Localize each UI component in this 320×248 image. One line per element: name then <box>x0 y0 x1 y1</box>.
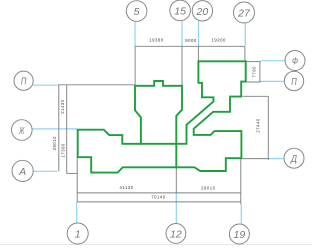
svg-text:19380: 19380 <box>149 37 164 42</box>
svg-text:1: 1 <box>75 229 81 241</box>
svg-text:27440: 27440 <box>255 118 260 133</box>
svg-text:20: 20 <box>196 6 209 18</box>
svg-text:17390: 17390 <box>60 143 65 158</box>
svg-text:Ф: Ф <box>292 56 298 68</box>
svg-text:7790: 7790 <box>251 66 256 78</box>
svg-text:70140: 70140 <box>151 194 166 199</box>
svg-text:19: 19 <box>234 229 246 241</box>
svg-text:Ж: Ж <box>19 125 25 137</box>
svg-text:А: А <box>18 166 26 178</box>
svg-text:29010: 29010 <box>201 185 216 190</box>
svg-text:9000: 9000 <box>185 38 197 43</box>
svg-text:41130: 41130 <box>120 185 134 190</box>
svg-text:39010: 39010 <box>52 136 57 151</box>
svg-text:П: П <box>291 76 297 88</box>
svg-text:15: 15 <box>174 5 186 17</box>
svg-text:12: 12 <box>170 228 182 240</box>
svg-text:19200: 19200 <box>211 38 226 43</box>
svg-text:Д: Д <box>290 153 297 165</box>
svg-text:5: 5 <box>134 6 140 18</box>
svg-text:21430: 21430 <box>60 99 65 114</box>
svg-text:27: 27 <box>237 8 251 20</box>
svg-text:П: П <box>21 76 27 88</box>
